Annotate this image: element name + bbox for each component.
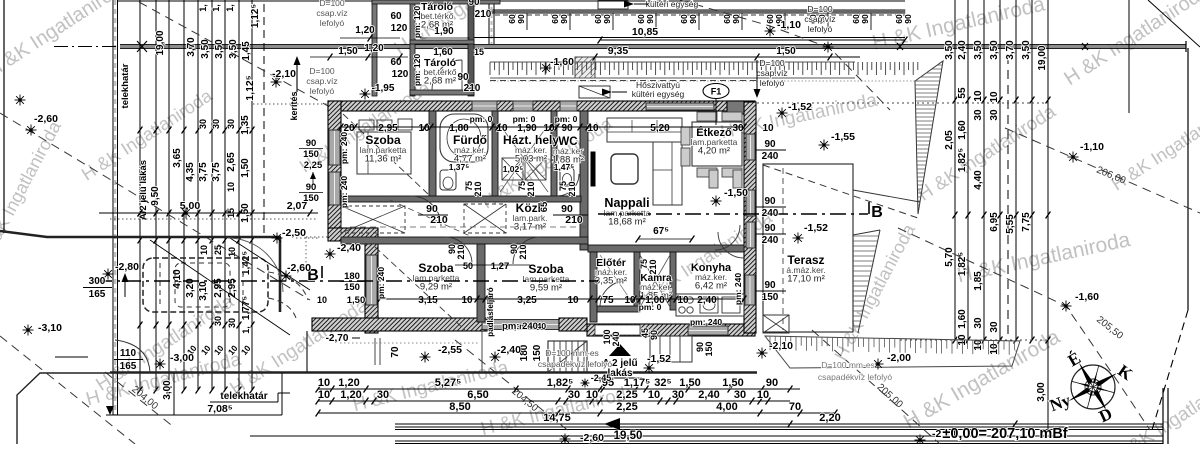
bottom dim row1 — [318, 388, 800, 390]
svg-text:1,20: 1,20 — [340, 389, 361, 401]
svg-text:csapadékvíz lefolyó: csapadékvíz lefolyó — [538, 359, 612, 369]
svg-text:-2,00: -2,00 — [887, 352, 911, 364]
right dotted row upper — [757, 102, 1048, 104]
window L2 — [329, 172, 340, 205]
svg-text:210: 210 — [648, 259, 658, 274]
svg-text:3,50: 3,50 — [989, 40, 1000, 60]
svg-text:3,25: 3,25 — [517, 295, 537, 306]
road line 3 — [395, 429, 1163, 431]
svg-text:1,60: 1,60 — [433, 47, 453, 58]
elevation star — [873, 363, 884, 365]
svg-text:7,75: 7,75 — [1021, 212, 1032, 232]
svg-text:67⁵: 67⁵ — [653, 226, 669, 237]
door arc wc — [557, 174, 579, 196]
svg-text:pm: 0: pm: 0 — [555, 114, 578, 124]
eloter diag — [600, 255, 634, 305]
svg-text:10: 10 — [762, 123, 774, 134]
svg-text:90: 90 — [766, 377, 778, 389]
dotted eave line left — [253, 103, 328, 105]
diagonal boundary D2 — [0, 113, 310, 300]
svg-text:210: 210 — [518, 244, 528, 259]
svg-text:90: 90 — [602, 14, 612, 24]
svg-text:1,50: 1,50 — [679, 377, 700, 389]
svg-text:-1,10: -1,10 — [777, 19, 801, 31]
svg-text:6,95: 6,95 — [989, 212, 1000, 232]
svg-text:3,15: 3,15 — [418, 295, 438, 306]
vertical wall 490 — [488, 0, 490, 44]
F1 oval — [703, 84, 729, 99]
svg-text:19,50: 19,50 — [614, 430, 643, 442]
dotted eave corner — [305, 237, 307, 263]
svg-text:D=100 mm-es: D=100 mm-es — [821, 360, 875, 370]
elevation star — [281, 275, 292, 277]
tarolo top wall — [372, 0, 500, 4]
dotted -2,50 — [296, 237, 320, 239]
svg-text:1,45: 1,45 — [241, 41, 252, 61]
svg-text:pm: 240: pm: 240 — [690, 317, 722, 327]
svg-text:30: 30 — [973, 109, 984, 121]
svg-text:padlásfeljáró: padlásfeljáró — [486, 287, 495, 336]
section line B left — [96, 280, 598, 282]
parking right edge — [279, 237, 282, 312]
svg-text:6,50: 6,50 — [467, 389, 488, 401]
svg-text:pm: 240: pm: 240 — [376, 267, 386, 299]
svg-text:-2,60: -2,60 — [34, 113, 58, 125]
svg-text:30: 30 — [734, 389, 746, 401]
svg-text:-2,60: -2,60 — [287, 262, 311, 274]
svg-text:90: 90 — [649, 330, 659, 340]
door arc szoba1 — [411, 196, 441, 226]
car body — [143, 258, 268, 312]
svg-text:1,50: 1,50 — [776, 46, 796, 57]
svg-text:D=100: D=100 — [807, 4, 833, 14]
svg-text:-1,52: -1,52 — [788, 101, 812, 113]
svg-text:90: 90 — [561, 123, 573, 134]
svg-text:-2,10: -2,10 — [769, 340, 793, 352]
thin line y37 — [474, 37, 905, 39]
svg-text:70: 70 — [789, 401, 801, 413]
svg-text:1,60: 1,60 — [957, 309, 968, 329]
svg-text:30: 30 — [211, 119, 221, 129]
svg-text:2,25: 2,25 — [304, 160, 323, 171]
svg-text:1,: 1, — [225, 4, 235, 12]
svg-text:17,10 m²: 17,10 m² — [787, 274, 825, 285]
wall bottom pier — [559, 318, 587, 331]
svg-text:210: 210 — [473, 181, 483, 196]
svg-text:A/2 jelű lakás: A/2 jelű lakás — [138, 160, 149, 220]
parking diag 2 — [230, 238, 310, 290]
svg-text:150: 150 — [303, 193, 319, 204]
hazt diag — [500, 125, 548, 192]
svg-text:-2,10: -2,10 — [272, 68, 296, 80]
svg-text:90: 90 — [731, 14, 741, 24]
svg-text:5,03 m²: 5,03 m² — [515, 154, 547, 165]
svg-text:8,50: 8,50 — [449, 401, 470, 413]
heatpump arrow — [602, 89, 612, 96]
fence end right — [1185, 41, 1187, 52]
top boundary line — [118, 0, 905, 2]
svg-text:3,00: 3,00 — [1036, 382, 1047, 402]
svg-text:7,08⁵: 7,08⁵ — [207, 403, 232, 415]
svg-text:pm: 0: pm: 0 — [639, 302, 662, 312]
svg-text:5,27⁵: 5,27⁵ — [435, 377, 462, 389]
svg-text:180: 180 — [344, 271, 360, 282]
svg-text:90: 90 — [306, 182, 317, 193]
elevation star — [1061, 305, 1072, 307]
svg-text:D=100: D=100 — [309, 66, 335, 76]
elevation star — [420, 356, 431, 358]
dim line 9,35 — [595, 56, 860, 58]
wall bottom left — [312, 318, 487, 331]
elevation star — [915, 439, 926, 441]
left border line — [3, 0, 5, 233]
svg-text:1,35: 1,35 — [240, 115, 251, 135]
svg-text:110: 110 — [120, 348, 137, 359]
svg-text:1,50: 1,50 — [240, 158, 251, 178]
contour 205,50 — [898, 228, 1150, 430]
elevation star — [15, 99, 26, 101]
svg-text:2,40: 2,40 — [697, 295, 717, 306]
svg-text:210: 210 — [565, 214, 583, 226]
bottom dim row2 — [318, 400, 790, 402]
elevation star — [644, 367, 655, 369]
wall left lower — [365, 241, 378, 333]
wall corridor bottom — [341, 237, 588, 244]
svg-text:150: 150 — [762, 292, 779, 303]
svg-text:3,75: 3,75 — [211, 162, 222, 182]
svg-text:lefolyó: lefolyó — [320, 18, 345, 28]
door arc nappali — [718, 232, 744, 258]
svg-text:10: 10 — [496, 123, 508, 134]
window R1 — [746, 134, 755, 160]
corridor dashed axis — [350, 226, 588, 228]
svg-text:D=100 mm-es: D=100 mm-es — [545, 348, 599, 358]
parking arc — [228, 238, 283, 292]
svg-text:3,50: 3,50 — [973, 40, 984, 60]
svg-text:300: 300 — [89, 276, 106, 287]
kerites arrow — [296, 60, 298, 92]
svg-text:18,68 m²: 18,68 m² — [608, 217, 646, 228]
right dimension ticks — [953, 97, 958, 104]
entrance steps — [650, 336, 692, 362]
svg-text:3,50: 3,50 — [1021, 40, 1032, 60]
svg-text:-2,55: -2,55 — [438, 344, 462, 356]
dim line left y57 — [310, 56, 408, 58]
driveway arc — [115, 340, 150, 372]
svg-text:70: 70 — [390, 346, 401, 358]
gate hatch — [575, 57, 595, 78]
elevation star — [793, 237, 804, 239]
svg-text:2,68 m²: 2,68 m² — [424, 76, 456, 87]
telekhatar double line — [112, 0, 114, 415]
up arrow parking — [124, 277, 126, 297]
tarolo mid h wall — [410, 40, 474, 44]
svg-text:2,40: 2,40 — [698, 389, 719, 401]
svg-text:30: 30 — [377, 389, 389, 401]
stairs bottom — [548, 341, 587, 372]
svg-text:2,95: 2,95 — [227, 278, 238, 298]
kamra shelf — [640, 255, 670, 307]
elevation star — [765, 30, 776, 32]
svg-text:pm: 120: pm: 120 — [412, 6, 422, 38]
svg-text:30: 30 — [198, 119, 208, 129]
contour bottom left — [0, 336, 135, 444]
porch right edge — [481, 331, 483, 373]
svg-text:-3,00: -3,00 — [170, 352, 194, 364]
svg-text:-1,60: -1,60 — [1075, 291, 1099, 303]
terrace corner line — [853, 190, 920, 202]
slope triangle — [915, 61, 943, 214]
svg-text:90: 90 — [764, 223, 776, 234]
svg-text:3,70: 3,70 — [1005, 40, 1016, 60]
bed — [357, 132, 411, 174]
svg-text:4,20 m²: 4,20 m² — [698, 146, 730, 157]
svg-text:1,42⁵: 1,42⁵ — [241, 251, 252, 275]
svg-text:90: 90 — [860, 14, 870, 24]
svg-text:60: 60 — [390, 11, 402, 22]
svg-text:1,85: 1,85 — [973, 271, 984, 291]
wall right — [744, 102, 756, 333]
left bottom vline2 — [281, 373, 283, 415]
svg-text:10: 10 — [567, 295, 579, 306]
right bottom border — [1162, 388, 1164, 444]
svg-text:3,70: 3,70 — [186, 37, 197, 57]
svg-text:210: 210 — [567, 181, 577, 196]
coffee table — [611, 154, 638, 184]
fence mark 1085 — [1082, 43, 1088, 50]
svg-text:pm: 0: pm: 0 — [470, 114, 493, 124]
svg-text:1,: 1, — [241, 326, 251, 334]
elevation star — [711, 200, 722, 202]
svg-text:90: 90 — [468, 0, 480, 8]
svg-text:csap.víz: csap.víz — [804, 14, 835, 24]
svg-text:10: 10 — [677, 295, 689, 306]
svg-text:lefolyó: lefolyó — [808, 24, 833, 34]
elevation star — [181, 212, 192, 214]
svg-text:30: 30 — [226, 119, 236, 129]
svg-text:6,42 m²: 6,42 m² — [695, 281, 727, 292]
svg-text:1,82⁵: 1,82⁵ — [957, 148, 968, 172]
svg-text:2,65: 2,65 — [226, 152, 237, 172]
svg-text:10: 10 — [199, 245, 209, 255]
roof dash diagonal szoba2 — [375, 247, 465, 330]
svg-text:10: 10 — [317, 295, 327, 305]
svg-text:1,12⁵: 1,12⁵ — [244, 75, 256, 100]
window R2 — [746, 190, 755, 216]
entrance triangle — [609, 344, 631, 356]
wall nappali-lower — [588, 245, 744, 252]
svg-text:-2,80: -2,80 — [115, 261, 139, 273]
svg-text:2,25: 2,25 — [616, 389, 637, 401]
svg-text:telekhatár: telekhatár — [220, 391, 267, 402]
svg-text:1,37⁵: 1,37⁵ — [449, 162, 470, 172]
wall bottom right — [587, 324, 755, 336]
svg-text:1,80: 1,80 — [449, 123, 469, 134]
svg-text:2,20: 2,20 — [819, 412, 840, 424]
svg-text:90: 90 — [764, 139, 776, 150]
elevation star — [23, 329, 34, 331]
svg-text:D=100: D=100 — [319, 0, 345, 8]
svg-text:210: 210 — [430, 214, 448, 226]
svg-text:B: B — [871, 204, 883, 221]
telekhatar bottom arrow — [106, 406, 114, 415]
svg-text:4,35: 4,35 — [185, 162, 196, 182]
svg-text:4,40: 4,40 — [973, 170, 984, 190]
wall wc-nappali — [580, 111, 588, 250]
svg-text:165: 165 — [120, 361, 137, 372]
elevation star — [271, 81, 282, 83]
wall eloter bottom — [597, 306, 640, 312]
svg-text:1,82⁵: 1,82⁵ — [957, 252, 968, 276]
svg-text:1,50: 1,50 — [347, 295, 366, 306]
svg-text:1,47⁵: 1,47⁵ — [554, 162, 575, 172]
svg-text:kerítés: kerítés — [289, 91, 299, 120]
window T2 — [513, 101, 533, 111]
washer X1 — [502, 158, 523, 180]
bottom slope hatch — [765, 336, 1020, 368]
wall kamra-konyha — [670, 252, 676, 310]
pillows — [359, 120, 374, 130]
elevation star — [1068, 156, 1079, 158]
wall szoba-furdo — [429, 111, 436, 196]
svg-text:30: 30 — [989, 109, 1000, 121]
heatpump box — [579, 86, 610, 98]
svg-text:210: 210 — [475, 9, 492, 20]
toilet furdo — [440, 170, 456, 190]
svg-text:10: 10 — [648, 389, 660, 401]
svg-text:5,55: 5,55 — [1005, 214, 1016, 234]
dim line 1,50r — [755, 54, 760, 61]
svg-text:30: 30 — [672, 389, 684, 401]
svg-text:1,02⁵: 1,02⁵ — [503, 164, 524, 174]
road line 5 — [395, 440, 1163, 442]
svg-text:120: 120 — [392, 69, 409, 80]
svg-text:10: 10 — [318, 389, 330, 401]
svg-text:11,36 m²: 11,36 m² — [365, 154, 402, 165]
svg-text:30: 30 — [227, 318, 237, 328]
svg-text:14,75: 14,75 — [543, 412, 571, 424]
wall left upper — [328, 101, 341, 232]
wall hazt-wc — [551, 111, 557, 196]
wall top — [328, 101, 755, 111]
wall eloter-kamra — [634, 252, 640, 310]
pavement comb bottom line — [490, 80, 920, 82]
svg-text:90: 90 — [516, 14, 526, 24]
svg-text:lefolyó: lefolyó — [310, 86, 335, 96]
section line B right — [598, 213, 868, 215]
kitchen counter — [676, 294, 744, 316]
svg-text:F1: F1 — [711, 87, 722, 97]
svg-text:1,60: 1,60 — [957, 120, 968, 140]
svg-text:1,50: 1,50 — [722, 377, 743, 389]
road arrow left — [604, 418, 620, 430]
svg-text:210: 210 — [456, 244, 466, 259]
wall corridor top — [341, 196, 581, 202]
top fence pillars — [526, 13, 528, 30]
svg-text:9,59 m²: 9,59 m² — [530, 283, 562, 294]
dining chairs — [697, 112, 717, 121]
svg-text:csap.víz: csap.víz — [756, 68, 787, 78]
terrace steps — [763, 315, 789, 333]
tarolo bottom wall — [410, 90, 474, 95]
svg-text:10: 10 — [318, 377, 330, 389]
fence X mark — [137, 41, 147, 52]
right boundary line — [1187, 48, 1189, 310]
svg-text:-2,70: -2,70 — [326, 333, 349, 344]
svg-text:4,10: 4,10 — [172, 269, 183, 289]
dotted line left — [110, 218, 318, 220]
wardrobe dashed — [341, 206, 405, 233]
svg-text:-2,50: -2,50 — [282, 227, 306, 239]
elevation star — [103, 273, 114, 275]
svg-text:1,: 1, — [211, 4, 221, 12]
svg-text:10: 10 — [586, 389, 598, 401]
svg-text:2,25: 2,25 — [616, 401, 637, 413]
svg-text:30: 30 — [213, 316, 223, 326]
svg-text:10: 10 — [757, 389, 769, 401]
porch left edge — [306, 331, 308, 373]
right dotted row — [900, 339, 1048, 341]
svg-text:240: 240 — [762, 235, 779, 246]
contour -1,10 top — [680, 0, 890, 110]
bottom-left boundary — [17, 373, 110, 444]
elevation star — [325, 253, 336, 255]
svg-text:pm: 0: pm: 0 — [513, 114, 536, 124]
svg-text:15: 15 — [474, 47, 484, 57]
window B2 kitchen — [688, 326, 728, 335]
svg-text:3,75: 3,75 — [198, 162, 209, 182]
contour 206,00 — [1005, 128, 1200, 213]
svg-text:-1,50: -1,50 — [724, 187, 748, 199]
road line 2 — [395, 426, 1163, 428]
svg-text:30: 30 — [989, 321, 1000, 333]
road line 1 — [395, 423, 1163, 425]
svg-text:1,20: 1,20 — [364, 43, 384, 54]
svg-text:lefolyó: lefolyó — [760, 78, 785, 88]
svg-text:1,90: 1,90 — [434, 26, 454, 37]
svg-text:165: 165 — [89, 289, 106, 300]
svg-text:32⁵: 32⁵ — [654, 377, 671, 389]
parking bottom edge — [110, 371, 757, 373]
svg-text:150: 150 — [344, 282, 360, 293]
left dimension ticks — [138, 127, 143, 134]
window T1 — [472, 101, 497, 111]
wall szoba2-eloter — [590, 252, 597, 322]
bottom dim row3 — [318, 412, 835, 414]
car cabin — [175, 263, 230, 307]
svg-text:10: 10 — [461, 295, 473, 306]
svg-text:10: 10 — [989, 91, 1000, 103]
svg-text:pm: 240: pm: 240 — [733, 273, 743, 305]
tv wall bar — [591, 152, 595, 186]
svg-text:-2,40: -2,40 — [497, 344, 521, 356]
svg-text:4,00: 4,00 — [716, 401, 737, 413]
svg-text:2,40: 2,40 — [957, 40, 968, 60]
svg-text:240: 240 — [762, 151, 779, 162]
svg-text:-2,45: -2,45 — [591, 373, 612, 383]
diagonal boundary D1 — [139, 2, 330, 107]
svg-text:65: 65 — [539, 201, 550, 212]
window L1 — [329, 130, 340, 165]
contour 204,50 — [455, 340, 570, 432]
terrace dashed axis — [782, 168, 784, 330]
heatpump top box — [598, 0, 628, 9]
svg-text:90: 90 — [457, 72, 469, 83]
svg-text:150: 150 — [303, 149, 319, 160]
svg-text:3,10: 3,10 — [198, 281, 209, 301]
elevation star — [560, 438, 571, 440]
door arc entrance — [715, 225, 740, 250]
